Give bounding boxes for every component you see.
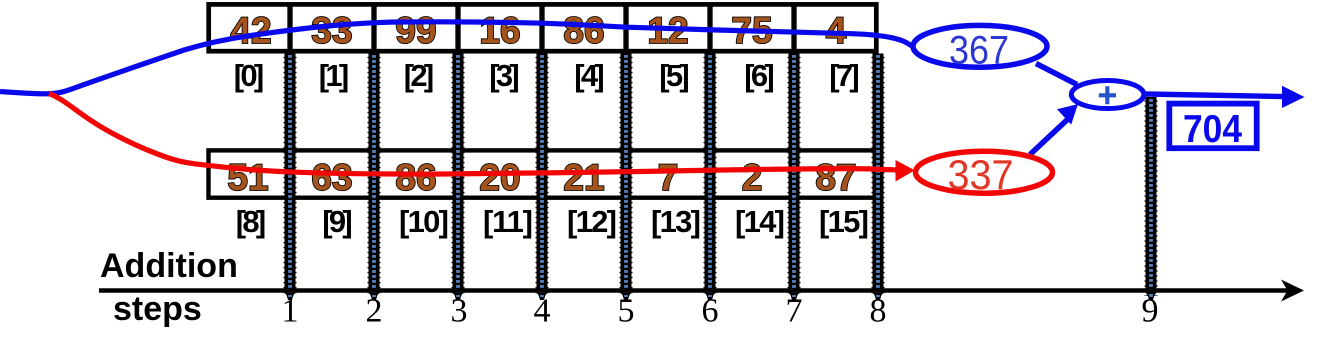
axis arrowhead	[1281, 280, 1304, 302]
top array indices [0]..[7]	[234, 58, 860, 93]
svg-text:704: 704	[1183, 108, 1242, 151]
step bar 8	[873, 54, 884, 301]
svg-text:20: 20	[479, 157, 520, 198]
svg-text:99: 99	[395, 10, 436, 51]
step bar 6	[705, 54, 716, 301]
svg-text:[8]: [8]	[236, 204, 267, 239]
svg-text:[0]: [0]	[234, 58, 265, 93]
blue output arrow from plus	[1146, 94, 1285, 97]
svg-text:5: 5	[618, 293, 635, 330]
step bar 2	[369, 54, 380, 301]
blue sum curve over top array	[0, 22, 912, 94]
svg-text:87: 87	[815, 157, 856, 198]
blue arrow 337 to plus	[1030, 119, 1068, 155]
svg-text:21: 21	[563, 157, 604, 198]
top array box	[209, 4, 877, 51]
svg-text:16: 16	[479, 10, 520, 51]
svg-text:2: 2	[366, 293, 383, 330]
svg-text:steps: steps	[113, 290, 202, 328]
blue connector 367 to plus	[1036, 64, 1077, 85]
svg-text:63: 63	[311, 157, 352, 198]
svg-text:[14]: [14]	[735, 204, 785, 239]
svg-text:[11]: [11]	[483, 204, 533, 239]
svg-text:[15]: [15]	[819, 204, 869, 239]
step bar 9	[1146, 97, 1157, 300]
svg-text:[13]: [13]	[651, 204, 701, 239]
step bar 1	[285, 54, 296, 301]
ellipse 337	[916, 151, 1053, 198]
plus ellipse	[1071, 81, 1144, 109]
step bar 5	[621, 54, 632, 301]
svg-text:[12]: [12]	[567, 204, 617, 239]
svg-text:2: 2	[742, 157, 763, 198]
svg-text:42: 42	[230, 10, 271, 51]
axis label Addition steps	[100, 247, 238, 328]
svg-text:[10]: [10]	[399, 204, 449, 239]
svg-text:[2]: [2]	[404, 58, 435, 93]
svg-text:3: 3	[451, 293, 468, 330]
svg-text:337: 337	[948, 151, 1014, 198]
svg-text:367: 367	[949, 29, 1009, 73]
result box 704	[1169, 104, 1256, 151]
svg-text:[5]: [5]	[659, 58, 690, 93]
bottom array indices [8]..[15]	[236, 204, 869, 239]
red arrowhead into 337	[896, 160, 915, 182]
svg-text:4: 4	[534, 293, 551, 330]
svg-text:33: 33	[311, 10, 352, 51]
svg-text:[7]: [7]	[829, 58, 860, 93]
svg-text:7: 7	[786, 293, 803, 330]
ellipse 367	[913, 25, 1047, 72]
svg-text:7: 7	[658, 157, 679, 198]
axis step numbers 1..9	[282, 293, 1159, 330]
svg-text:[9]: [9]	[322, 204, 353, 239]
svg-text:6: 6	[702, 293, 719, 330]
svg-text:9: 9	[1142, 293, 1159, 330]
step bar 3	[453, 54, 464, 301]
addition steps axis	[99, 288, 1288, 293]
step bar 4	[537, 54, 548, 301]
red sum curve over bottom array	[49, 94, 896, 175]
svg-text:[1]: [1]	[319, 58, 350, 93]
svg-text:8: 8	[870, 293, 887, 330]
top array values 42 33 99 16 86 12 75 4	[230, 10, 846, 51]
svg-text:51: 51	[227, 157, 268, 198]
svg-text:[4]: [4]	[574, 58, 605, 93]
svg-text:Addition: Addition	[100, 247, 238, 285]
step bar 7	[789, 54, 800, 301]
bottom array box	[209, 150, 877, 198]
svg-text:1: 1	[282, 293, 299, 330]
svg-text:[3]: [3]	[489, 58, 520, 93]
svg-text:86: 86	[563, 10, 604, 51]
svg-text:[6]: [6]	[744, 58, 775, 93]
svg-text:86: 86	[395, 157, 436, 198]
bottom array values 51 63 86 20 21 7 2 87	[227, 157, 856, 198]
